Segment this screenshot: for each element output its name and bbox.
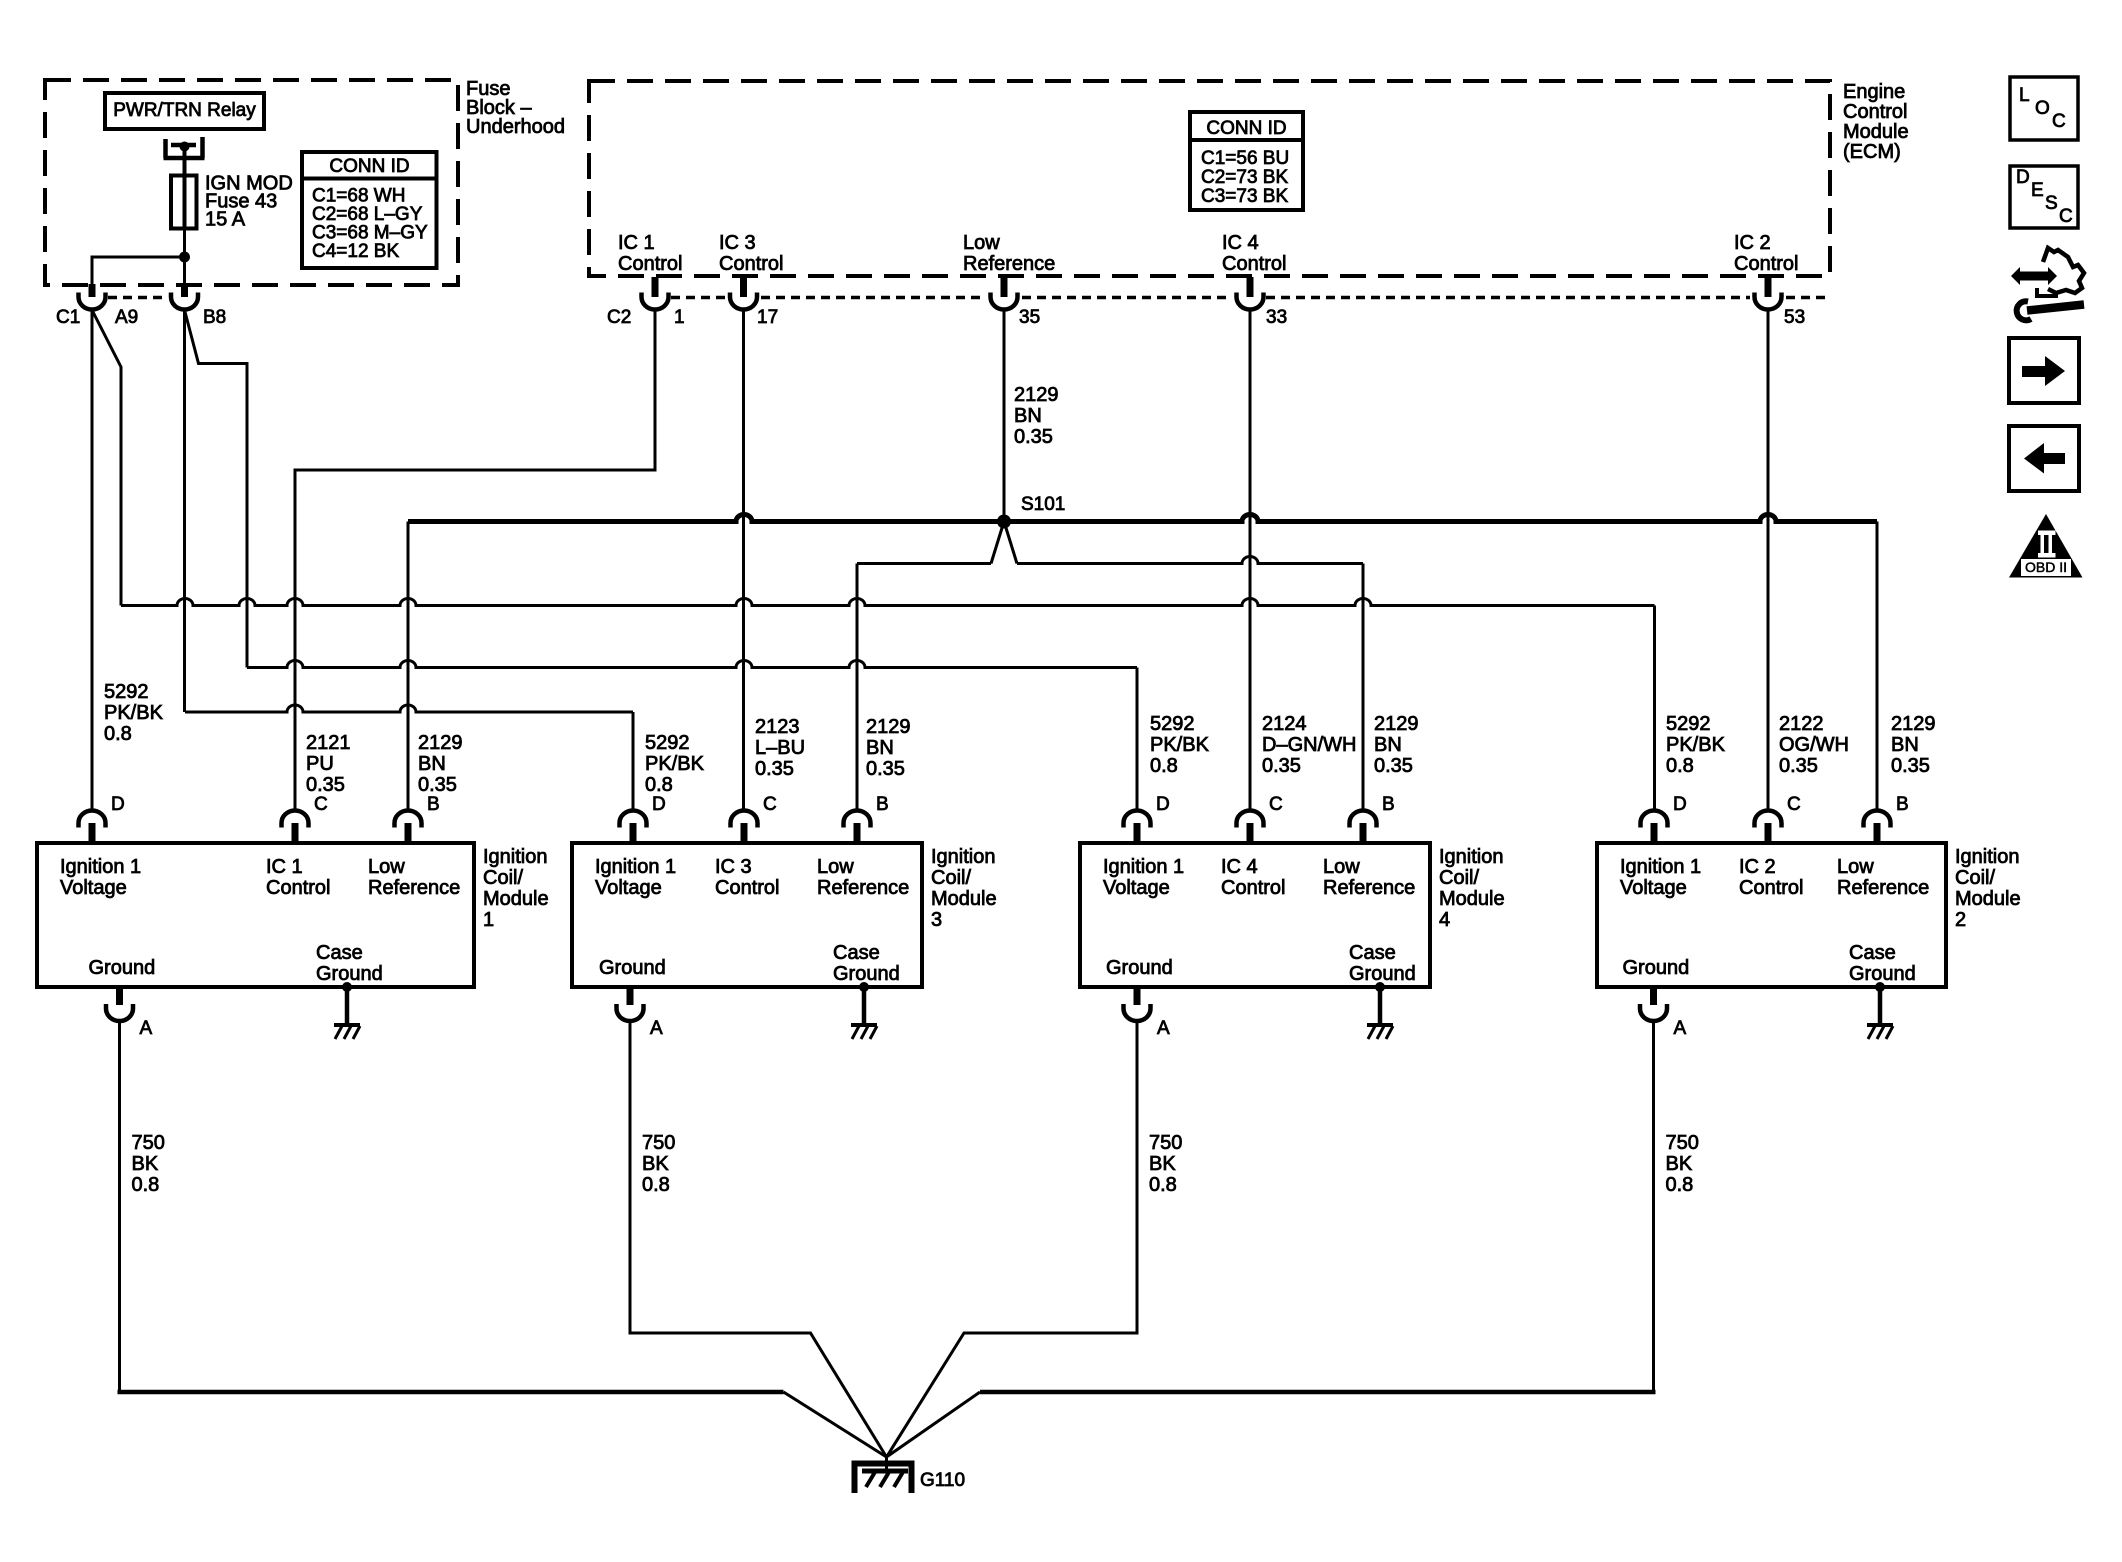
case ground stub coil1 xyxy=(345,987,350,1024)
svg-text:D: D xyxy=(652,794,666,815)
svg-text:Ignition: Ignition xyxy=(1439,846,1504,868)
connector C1 cavity A9 xyxy=(79,293,106,310)
svg-text:C: C xyxy=(1787,794,1801,815)
coil3 text low reference xyxy=(817,856,909,899)
svg-text:Low: Low xyxy=(817,856,854,878)
connector cavity C coil1 xyxy=(282,811,309,828)
wire label 2123 coil3 xyxy=(755,716,805,780)
svg-text:B8: B8 xyxy=(203,307,226,328)
svg-text:750: 750 xyxy=(1149,1132,1182,1154)
svg-text:C: C xyxy=(2059,206,2073,227)
svg-text:Engine: Engine xyxy=(1843,81,1905,103)
connector cavity A coil2 xyxy=(1640,1004,1667,1021)
svg-text:0.8: 0.8 xyxy=(1666,755,1694,777)
wire coil2 D drop xyxy=(1653,606,1656,812)
connector cavity B coil2 xyxy=(1864,811,1891,828)
svg-text:Coil/: Coil/ xyxy=(483,867,523,889)
connector cavity B coil1 xyxy=(395,811,422,828)
wire coil3 B drop xyxy=(856,564,859,812)
svg-text:2122: 2122 xyxy=(1779,713,1824,735)
coil2 text IC 2 control xyxy=(1739,856,1803,899)
coil3 text case ground xyxy=(833,942,900,985)
wire splice to A9 xyxy=(92,257,185,296)
svg-text:Low: Low xyxy=(963,232,1000,254)
svg-text:S: S xyxy=(2045,193,2058,214)
svg-text:A9: A9 xyxy=(115,307,138,328)
svg-text:Case: Case xyxy=(833,942,880,964)
engine control module box xyxy=(589,81,1830,276)
wire 2129 low reference bus xyxy=(408,515,1877,522)
svg-text:Ground: Ground xyxy=(599,957,666,979)
svg-text:2123: 2123 xyxy=(755,716,800,738)
ECM pin label IC 1 Control xyxy=(618,232,682,275)
svg-text:IC 1: IC 1 xyxy=(618,232,655,254)
coil1 text low reference xyxy=(368,856,460,899)
svg-text:BK: BK xyxy=(642,1153,669,1175)
connector cavity B coil3 xyxy=(844,811,871,828)
pin B coil2 xyxy=(1874,823,1881,843)
svg-text:0.8: 0.8 xyxy=(1150,755,1178,777)
svg-text:0.35: 0.35 xyxy=(866,758,905,780)
svg-text:0.35: 0.35 xyxy=(1891,755,1930,777)
splice S101 legs xyxy=(991,522,1017,564)
svg-text:15 A: 15 A xyxy=(205,209,246,231)
wire label 5292 coil1 xyxy=(104,681,164,745)
fuse block underhood box xyxy=(45,80,458,285)
wire label 750 BK 0.8 coil4 xyxy=(1149,1132,1182,1196)
svg-text:2129: 2129 xyxy=(1891,713,1936,735)
svg-text:Case: Case xyxy=(1849,942,1896,964)
coil2 text low reference xyxy=(1837,856,1929,899)
coil3 text ignition 1 voltage xyxy=(595,856,676,899)
svg-text:C2=73 BK: C2=73 BK xyxy=(1201,167,1288,188)
wire 2129 to coil3 B xyxy=(857,562,991,565)
wire 750 coil4 ground xyxy=(887,1022,1138,1458)
wire 5292 B8 branch xyxy=(185,310,248,668)
svg-text:IC 4: IC 4 xyxy=(1222,232,1259,254)
ECM pin label IC 2 Control xyxy=(1734,232,1798,275)
fuse block label xyxy=(466,78,565,138)
svg-text:0.8: 0.8 xyxy=(104,723,132,745)
svg-text:Ground: Ground xyxy=(1849,963,1916,985)
wire 2121 IC1 control xyxy=(295,310,655,811)
svg-text:IC 1: IC 1 xyxy=(266,856,303,878)
connector cavity 53 xyxy=(1755,293,1782,310)
ECM pin label IC 4 Control xyxy=(1222,232,1286,275)
svg-text:Coil/: Coil/ xyxy=(931,867,971,889)
svg-text:Voltage: Voltage xyxy=(1103,877,1170,899)
icon arrow back xyxy=(2009,426,2079,491)
svg-text:D: D xyxy=(1673,794,1687,815)
wire label 5292 coil3 xyxy=(645,732,705,796)
icon OBD II xyxy=(2009,514,2083,578)
svg-text:Ground: Ground xyxy=(316,963,383,985)
pin A coil4 xyxy=(1134,987,1141,1005)
wire label 2121 coil1 xyxy=(306,732,351,796)
pin B coil1 xyxy=(405,823,412,843)
svg-text:0.8: 0.8 xyxy=(642,1174,670,1196)
svg-text:Voltage: Voltage xyxy=(1620,877,1687,899)
junction below fuse xyxy=(179,252,190,263)
case ground symbol coil4 xyxy=(1367,1025,1393,1039)
svg-text:E: E xyxy=(2031,180,2044,201)
svg-text:C2: C2 xyxy=(607,307,631,328)
svg-text:PWR/TRN Relay: PWR/TRN Relay xyxy=(113,100,256,121)
svg-text:Ground: Ground xyxy=(1106,957,1173,979)
svg-text:Coil/: Coil/ xyxy=(1439,867,1479,889)
conn id table fuse block xyxy=(302,152,437,268)
icon vehicle navigation xyxy=(2011,248,2084,320)
wire 2129 to coil4 B xyxy=(1017,557,1363,564)
pin C coil3 xyxy=(741,823,748,843)
coil4 text case ground xyxy=(1349,942,1416,985)
connector cavity B coil4 xyxy=(1350,811,1377,828)
svg-text:G110: G110 xyxy=(920,1470,965,1491)
svg-text:A: A xyxy=(650,1018,663,1039)
wire label 2129 coil1 xyxy=(418,732,463,796)
ignition coil module 3 box xyxy=(572,843,922,987)
coil1 name label xyxy=(483,846,549,931)
wire coil4 D drop xyxy=(1136,668,1139,812)
svg-text:2129: 2129 xyxy=(1374,713,1419,735)
svg-text:Reference: Reference xyxy=(963,253,1055,275)
connector cavity 35 xyxy=(991,293,1018,310)
ECM pin label Low Reference xyxy=(963,232,1055,275)
svg-text:Ignition: Ignition xyxy=(483,846,548,868)
svg-text:IC 3: IC 3 xyxy=(715,856,752,878)
svg-text:OBD II: OBD II xyxy=(2025,559,2067,575)
svg-text:S101: S101 xyxy=(1021,494,1065,515)
wire label 2129 coil2 xyxy=(1891,713,1936,777)
svg-text:Voltage: Voltage xyxy=(595,877,662,899)
ECM connector row dotted xyxy=(671,296,1828,300)
pin B coil3 xyxy=(854,823,861,843)
wire coil4 B drop xyxy=(1362,564,1365,812)
svg-text:Ignition 1: Ignition 1 xyxy=(60,856,141,878)
svg-text:Low: Low xyxy=(368,856,405,878)
svg-text:BK: BK xyxy=(132,1153,159,1175)
ECM pin 53 xyxy=(1765,277,1772,297)
wire 5292 bus to coil4 D xyxy=(247,661,1137,668)
ECM pin 35 xyxy=(1001,277,1008,297)
svg-text:Coil/: Coil/ xyxy=(1955,867,1995,889)
svg-text:BN: BN xyxy=(1891,734,1919,756)
wire label 5292 coil4 xyxy=(1150,713,1210,777)
svg-text:Ground: Ground xyxy=(89,957,156,979)
svg-text:Reference: Reference xyxy=(1837,877,1929,899)
svg-text:Ignition 1: Ignition 1 xyxy=(1103,856,1184,878)
svg-text:0.8: 0.8 xyxy=(132,1174,160,1196)
wire 2122 IC2 control xyxy=(1767,310,1770,811)
svg-text:4: 4 xyxy=(1439,909,1450,931)
ECM pin 17 xyxy=(740,277,747,297)
connector cavity D coil2 xyxy=(1641,811,1668,828)
ignition coil module 2 box xyxy=(1597,843,1946,987)
svg-text:Underhood: Underhood xyxy=(466,116,565,138)
pin D coil2 xyxy=(1651,823,1658,843)
svg-text:1: 1 xyxy=(483,909,494,931)
svg-text:Control: Control xyxy=(1734,253,1798,275)
svg-text:B: B xyxy=(876,794,889,815)
svg-text:Module: Module xyxy=(1843,121,1909,143)
svg-text:C: C xyxy=(1269,794,1283,815)
wire label 750 BK 0.8 coil3 xyxy=(642,1132,675,1196)
svg-text:L–BU: L–BU xyxy=(755,737,805,759)
svg-text:B: B xyxy=(427,794,440,815)
svg-text:PK/BK: PK/BK xyxy=(645,753,705,775)
svg-text:33: 33 xyxy=(1266,307,1287,328)
svg-text:Ignition: Ignition xyxy=(931,846,996,868)
svg-text:BK: BK xyxy=(1149,1153,1176,1175)
ECM label xyxy=(1843,81,1909,163)
svg-text:0.8: 0.8 xyxy=(1149,1174,1177,1196)
connector cavity A coil3 xyxy=(617,1004,644,1021)
case ground symbol coil2 xyxy=(1867,1025,1893,1039)
wire 750 coil2 ground xyxy=(1652,1022,1655,1393)
svg-text:Ignition 1: Ignition 1 xyxy=(1620,856,1701,878)
wire 2123 IC3 control xyxy=(742,310,745,811)
coil4 text ignition 1 voltage xyxy=(1103,856,1184,899)
wire 750 coil3 ground xyxy=(630,1022,887,1458)
svg-text:C: C xyxy=(314,794,328,815)
pin A9 xyxy=(89,284,96,297)
svg-text:750: 750 xyxy=(132,1132,165,1154)
svg-text:C1=56 BU: C1=56 BU xyxy=(1201,148,1289,169)
svg-text:C4=12 BK: C4=12 BK xyxy=(312,241,399,262)
wire label 2124 coil4 xyxy=(1262,713,1356,777)
svg-text:Ignition 1: Ignition 1 xyxy=(595,856,676,878)
svg-text:5292: 5292 xyxy=(1666,713,1711,735)
pin C coil4 xyxy=(1247,823,1254,843)
pin C coil1 xyxy=(292,823,299,843)
wire coil3 D drop xyxy=(632,712,635,811)
svg-text:Voltage: Voltage xyxy=(60,877,127,899)
connector cavity D coil1 xyxy=(79,811,106,828)
connector cavity D coil3 xyxy=(620,811,647,828)
case ground symbol coil1 xyxy=(334,1025,360,1039)
wire label 5292 coil2 xyxy=(1666,713,1726,777)
svg-text:53: 53 xyxy=(1784,307,1805,328)
case ground stub coil3 xyxy=(862,987,867,1024)
svg-text:B: B xyxy=(1382,794,1395,815)
coil4 text IC 4 control xyxy=(1221,856,1285,899)
svg-text:Module: Module xyxy=(1439,888,1505,910)
case ground junction coil3 xyxy=(859,982,869,992)
svg-text:2129: 2129 xyxy=(1014,384,1059,406)
wire 2129 low reference from pin 35 xyxy=(1003,310,1006,519)
svg-text:IC 2: IC 2 xyxy=(1734,232,1771,254)
wire label 2129 BN 0.35 top xyxy=(1014,384,1059,448)
fuse F43 IGN MOD 15A xyxy=(171,176,197,229)
svg-text:D–GN/WH: D–GN/WH xyxy=(1262,734,1356,756)
connector cavity D coil4 xyxy=(1124,811,1151,828)
svg-text:0.35: 0.35 xyxy=(1374,755,1413,777)
wire 5292 B8 to bus xyxy=(183,310,186,712)
coil2 text ignition 1 voltage xyxy=(1620,856,1701,899)
connector cavity 33 xyxy=(1237,293,1264,310)
svg-text:1: 1 xyxy=(674,307,685,328)
svg-text:0.35: 0.35 xyxy=(755,758,794,780)
wire label 750 BK 0.8 coil1 xyxy=(132,1132,165,1196)
svg-text:Control: Control xyxy=(715,877,779,899)
svg-text:PK/BK: PK/BK xyxy=(1666,734,1726,756)
svg-text:C: C xyxy=(763,794,777,815)
ECM pin 1 xyxy=(652,277,659,297)
icon arrow next xyxy=(2009,338,2079,403)
svg-text:B: B xyxy=(1896,794,1909,815)
svg-text:Module: Module xyxy=(483,888,549,910)
svg-text:L: L xyxy=(2019,85,2030,106)
svg-text:Control: Control xyxy=(266,877,330,899)
svg-text:Case: Case xyxy=(316,942,363,964)
svg-text:750: 750 xyxy=(642,1132,675,1154)
case ground junction coil4 xyxy=(1375,982,1385,992)
svg-text:BK: BK xyxy=(1666,1153,1693,1175)
pin B8 xyxy=(181,284,188,297)
connector cavity 1 xyxy=(642,293,669,310)
relay output terminal xyxy=(164,137,205,158)
connector cavity C coil2 xyxy=(1755,811,1782,828)
ground G110 xyxy=(855,1457,912,1493)
svg-text:Control: Control xyxy=(1222,253,1286,275)
pin A coil2 xyxy=(1650,987,1657,1005)
svg-text:BN: BN xyxy=(866,737,894,759)
coil1 text IC 1 control xyxy=(266,856,330,899)
pin D coil4 xyxy=(1134,823,1141,843)
ignition coil module 4 box xyxy=(1080,843,1430,987)
relay K1 PWR/TRN Relay xyxy=(105,93,264,129)
svg-text:D: D xyxy=(111,794,125,815)
svg-text:PK/BK: PK/BK xyxy=(104,702,164,724)
svg-text:0.35: 0.35 xyxy=(1779,755,1818,777)
svg-text:2121: 2121 xyxy=(306,732,351,754)
wire label 2129 coil3 xyxy=(866,716,911,780)
svg-text:5292: 5292 xyxy=(645,732,690,754)
case ground junction coil1 xyxy=(342,982,352,992)
wire 5292 bus to coil3 D xyxy=(185,705,633,712)
svg-text:Control: Control xyxy=(1739,877,1803,899)
coil3 text IC 3 control xyxy=(715,856,779,899)
icon DESC button xyxy=(2010,166,2078,228)
pin D coil1 xyxy=(89,823,96,843)
svg-text:A: A xyxy=(140,1018,153,1039)
svg-text:Reference: Reference xyxy=(368,877,460,899)
svg-text:2: 2 xyxy=(1955,909,1966,931)
svg-text:Control: Control xyxy=(719,253,783,275)
svg-text:A: A xyxy=(1157,1018,1170,1039)
svg-text:0.8: 0.8 xyxy=(1666,1174,1694,1196)
svg-text:IC 3: IC 3 xyxy=(719,232,756,254)
svg-text:Ground: Ground xyxy=(1623,957,1690,979)
fuse label xyxy=(205,173,293,231)
pin A coil1 xyxy=(116,987,123,1005)
svg-text:Ignition: Ignition xyxy=(1955,846,2020,868)
wire relay to fuse xyxy=(183,145,187,176)
svg-text:Reference: Reference xyxy=(817,877,909,899)
svg-text:Module: Module xyxy=(931,888,997,910)
svg-text:0.8: 0.8 xyxy=(645,774,673,796)
wire label 2129 coil4 xyxy=(1374,713,1419,777)
coil1 text case ground xyxy=(316,942,383,985)
ECM pin label IC 3 Control xyxy=(719,232,783,275)
svg-text:IC 4: IC 4 xyxy=(1221,856,1258,878)
svg-text:CONN ID: CONN ID xyxy=(329,156,409,177)
wire coil2 B drop xyxy=(1876,522,1879,812)
svg-text:17: 17 xyxy=(757,307,778,328)
svg-text:5292: 5292 xyxy=(104,681,149,703)
coil2 text case ground xyxy=(1849,942,1916,985)
svg-text:Control: Control xyxy=(1843,101,1907,123)
svg-text:0.35: 0.35 xyxy=(1014,426,1053,448)
case ground junction coil2 xyxy=(1875,982,1885,992)
case ground stub coil4 xyxy=(1378,987,1383,1024)
svg-text:(ECM): (ECM) xyxy=(1843,141,1901,163)
svg-text:Ground: Ground xyxy=(1349,963,1416,985)
connector cavity C coil4 xyxy=(1237,811,1264,828)
svg-text:D: D xyxy=(1156,794,1170,815)
svg-text:Case: Case xyxy=(1349,942,1396,964)
svg-text:Control: Control xyxy=(618,253,682,275)
svg-text:0.35: 0.35 xyxy=(1262,755,1301,777)
svg-text:Module: Module xyxy=(1955,888,2021,910)
svg-text:CONN ID: CONN ID xyxy=(1206,118,1286,139)
wire 5292 bus to coil2 D xyxy=(121,599,1655,606)
svg-text:D: D xyxy=(2016,167,2030,188)
svg-text:O: O xyxy=(2035,98,2050,119)
connector cavity C coil3 xyxy=(731,811,758,828)
svg-text:Low: Low xyxy=(1323,856,1360,878)
connector cavity 17 xyxy=(730,293,757,310)
svg-text:PU: PU xyxy=(306,753,334,775)
ECM pin 33 xyxy=(1247,277,1254,297)
wire 5292 A9 branch xyxy=(92,310,121,606)
splice S101 xyxy=(997,515,1011,529)
coil4 name label xyxy=(1439,846,1505,931)
svg-text:Control: Control xyxy=(1221,877,1285,899)
pin C coil2 xyxy=(1765,823,1772,843)
svg-text:3: 3 xyxy=(931,909,942,931)
svg-text:BN: BN xyxy=(1014,405,1042,427)
svg-text:BN: BN xyxy=(1374,734,1402,756)
svg-text:Reference: Reference xyxy=(1323,877,1415,899)
coil4 text low reference xyxy=(1323,856,1415,899)
svg-text:Ground: Ground xyxy=(833,963,900,985)
svg-text:2129: 2129 xyxy=(418,732,463,754)
conn id table ECM xyxy=(1190,112,1303,210)
pin B coil4 xyxy=(1360,823,1367,843)
svg-text:PK/BK: PK/BK xyxy=(1150,734,1210,756)
icon LOC button xyxy=(2010,77,2078,140)
wire coil1 B drop xyxy=(407,522,410,812)
svg-text:0.35: 0.35 xyxy=(418,774,457,796)
coil3 name label xyxy=(931,846,997,931)
wire fuse to splice xyxy=(183,228,186,296)
wire label 750 BK 0.8 coil2 xyxy=(1666,1132,1699,1196)
svg-text:A: A xyxy=(1674,1018,1687,1039)
pin D coil3 xyxy=(630,823,637,843)
coil2 name label xyxy=(1955,846,2021,931)
svg-text:750: 750 xyxy=(1666,1132,1699,1154)
pin A coil3 xyxy=(627,987,634,1005)
svg-text:35: 35 xyxy=(1019,307,1040,328)
connector cavity A coil1 xyxy=(106,1004,133,1021)
svg-text:C3=73 BK: C3=73 BK xyxy=(1201,186,1288,207)
wire 750 coil1 ground xyxy=(118,1022,121,1393)
svg-text:C: C xyxy=(2052,111,2066,132)
wire 5292 A9 to coil1 D xyxy=(91,310,94,811)
connector C1 cavity B8 xyxy=(171,293,198,310)
svg-text:OG/WH: OG/WH xyxy=(1779,734,1849,756)
